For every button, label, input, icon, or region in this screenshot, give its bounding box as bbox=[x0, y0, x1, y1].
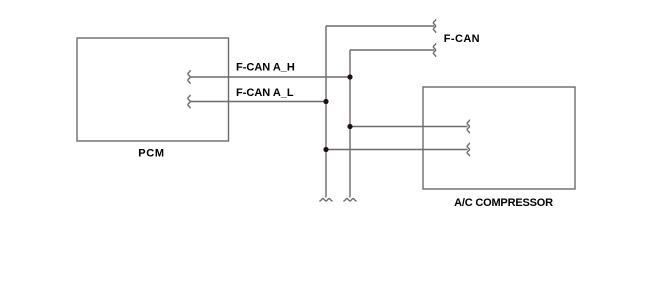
break symbol: bus 1 bottom bbox=[320, 199, 332, 201]
svg-text:F-CAN A_L: F-CAN A_L bbox=[236, 87, 294, 99]
break symbol: bus 2 top stub end bbox=[433, 44, 435, 57]
break symbol: F-CAN A_H at PCM bbox=[188, 71, 190, 84]
svg-text:A/C COMPRESSOR: A/C COMPRESSOR bbox=[454, 197, 553, 209]
break symbol: lower compressor wire end bbox=[467, 143, 469, 156]
wire: bus 1 top stub to F-CAN bbox=[326, 25, 434, 27]
break symbol: F-CAN A_L at PCM bbox=[188, 95, 190, 108]
junction: lower compressor wire on bus 1 bbox=[323, 147, 328, 152]
svg-text:F-CAN: F-CAN bbox=[444, 33, 480, 45]
svg-text:F-CAN A_H: F-CAN A_H bbox=[236, 62, 295, 74]
wire: F-CAN bus 1 vertical bbox=[325, 26, 327, 198]
svg-text:PCM: PCM bbox=[138, 148, 165, 160]
wire: bus 2 top stub to F-CAN bbox=[350, 49, 434, 51]
junction: F-CAN A_H on bus 2 bbox=[347, 74, 352, 79]
break symbol: bus 1 top stub end bbox=[433, 20, 435, 33]
wire F-CAN A_L bbox=[190, 101, 326, 103]
junction: F-CAN A_L on bus 1 bbox=[323, 99, 328, 104]
break symbol: upper compressor wire end bbox=[467, 120, 469, 133]
junction: upper compressor wire on bus 2 bbox=[347, 124, 352, 129]
wire: F-CAN bus 2 vertical bbox=[349, 50, 351, 198]
wire: bus 2 to A/C compressor (upper) bbox=[350, 126, 468, 128]
break symbol: bus 2 bottom bbox=[344, 199, 356, 201]
wire F-CAN A_H bbox=[190, 76, 350, 78]
wire: bus 1 to A/C compressor (lower) bbox=[326, 149, 468, 151]
PCM box bbox=[77, 38, 229, 141]
A/C COMPRESSOR box bbox=[423, 87, 575, 189]
